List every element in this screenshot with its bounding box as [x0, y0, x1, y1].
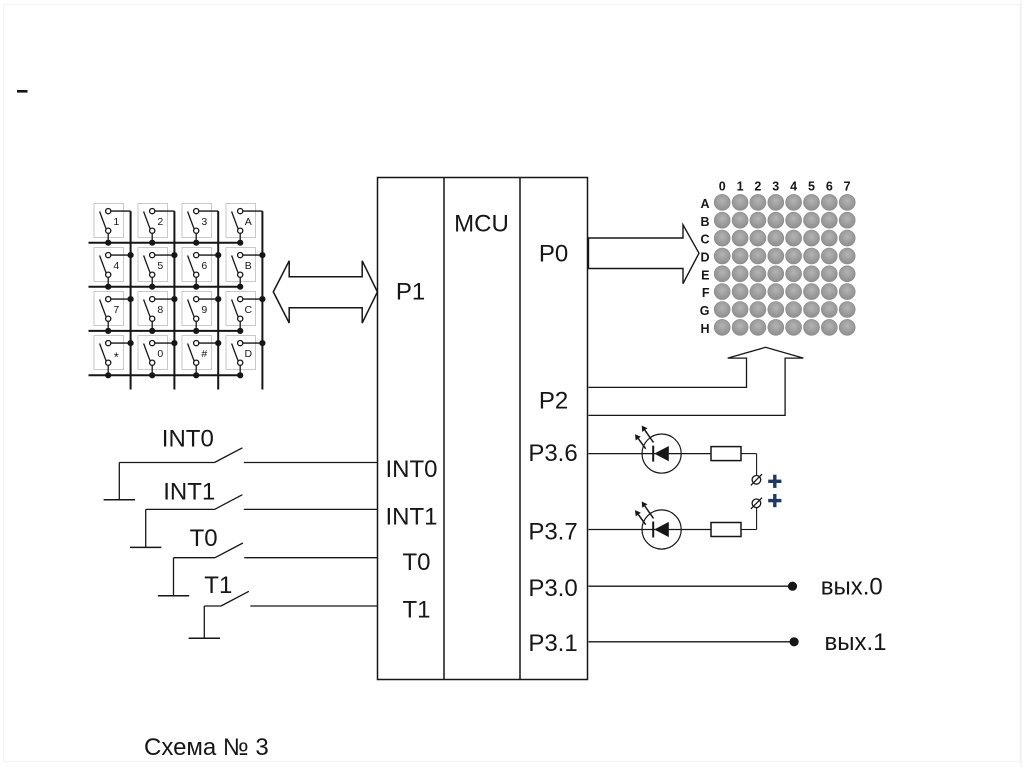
svg-text:T0: T0 [402, 549, 430, 576]
svg-text:F: F [702, 286, 710, 300]
svg-text:6: 6 [826, 180, 833, 194]
svg-text:5: 5 [157, 260, 163, 272]
svg-text:C: C [245, 304, 253, 316]
svg-text:вых.1: вых.1 [825, 629, 887, 656]
svg-text:T0: T0 [190, 525, 218, 552]
svg-text:3: 3 [201, 216, 207, 228]
svg-text:6: 6 [201, 260, 207, 272]
svg-text:INT0: INT0 [385, 456, 437, 483]
svg-text:P1: P1 [396, 279, 425, 306]
svg-text:P3.7: P3.7 [528, 519, 577, 546]
svg-text:A: A [245, 216, 252, 228]
svg-text:5: 5 [808, 180, 815, 194]
svg-text:P0: P0 [539, 241, 568, 268]
svg-text:E: E [701, 268, 709, 282]
svg-text:A: A [700, 197, 709, 211]
svg-text:1: 1 [737, 180, 744, 194]
svg-text:8: 8 [157, 304, 163, 316]
svg-text:вых.0: вых.0 [821, 573, 883, 600]
svg-text:P3.6: P3.6 [528, 440, 577, 467]
svg-text:T1: T1 [402, 597, 430, 624]
svg-text:D: D [700, 250, 709, 264]
svg-text:T1: T1 [204, 572, 232, 599]
svg-text:0: 0 [719, 180, 726, 194]
svg-text:9: 9 [201, 304, 207, 316]
svg-text:P3.1: P3.1 [528, 630, 577, 657]
svg-text:H: H [700, 322, 709, 336]
svg-text:INT1: INT1 [385, 504, 437, 531]
svg-text:3: 3 [772, 180, 779, 194]
svg-text:Схема № 3: Схема № 3 [144, 734, 269, 761]
svg-text:#: # [201, 348, 207, 360]
svg-text:P3.0: P3.0 [528, 575, 577, 602]
svg-text:D: D [245, 348, 253, 360]
svg-text:INT1: INT1 [163, 478, 215, 505]
svg-text:4: 4 [790, 180, 797, 194]
svg-text:MCU: MCU [454, 211, 509, 238]
svg-text:1: 1 [113, 216, 119, 228]
svg-text:7: 7 [113, 304, 119, 316]
svg-text:0: 0 [157, 348, 163, 360]
svg-text:4: 4 [113, 260, 119, 272]
svg-text:G: G [700, 304, 710, 318]
svg-text:*: * [114, 350, 119, 365]
svg-text:B: B [245, 260, 252, 272]
svg-text:P2: P2 [539, 388, 568, 415]
svg-text:7: 7 [844, 180, 851, 194]
svg-text:INT0: INT0 [162, 426, 214, 453]
svg-text:B: B [700, 215, 709, 229]
svg-text:2: 2 [754, 180, 761, 194]
svg-text:2: 2 [157, 216, 163, 228]
svg-text:C: C [700, 233, 709, 247]
